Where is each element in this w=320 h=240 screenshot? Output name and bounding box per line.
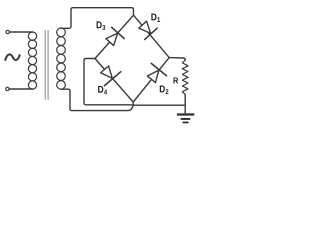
diode D1 bbox=[136, 19, 157, 39]
diamond edge: top node to right node (D1 branch) bbox=[134, 15, 170, 57]
AC sine symbol bbox=[5, 54, 19, 60]
AC source terminal bottom bbox=[6, 87, 9, 90]
wire: top terminal to primary bbox=[9, 31, 32, 33]
transformer primary winding bbox=[28, 32, 36, 89]
node: bridge left node return wire to bottom rail bbox=[84, 59, 133, 106]
label D1 bbox=[151, 14, 160, 22]
diamond edge: left node to top node (D3 branch) bbox=[95, 15, 134, 58]
label D2 bbox=[160, 86, 169, 94]
diode D3 bbox=[103, 27, 124, 47]
wire: secondary bottom to bottom rail bbox=[61, 89, 133, 110]
wire: right node to resistor top bbox=[169, 58, 185, 60]
label D3 bbox=[97, 21, 106, 30]
diamond edge: bottom node to right node (D2 branch) bbox=[133, 58, 169, 102]
transformer core bbox=[45, 31, 48, 100]
resistor R zigzag bbox=[182, 60, 188, 95]
wire: bridge bottom node to ground rail under load bbox=[133, 102, 185, 105]
diamond edge: left node to bottom node (D4 branch) bbox=[95, 59, 133, 103]
diode D2 bbox=[144, 63, 167, 85]
transformer secondary winding bbox=[57, 28, 66, 89]
wire: secondary top to bridge top node bbox=[61, 8, 134, 29]
wire: bottom terminal to primary bbox=[9, 88, 32, 90]
AC source terminal top bbox=[6, 30, 9, 33]
label D4 bbox=[98, 86, 107, 94]
diode D4 bbox=[96, 62, 120, 85]
label R bbox=[173, 77, 178, 83]
ground bbox=[177, 113, 194, 123]
wire: resistor bottom to ground bbox=[184, 95, 186, 114]
